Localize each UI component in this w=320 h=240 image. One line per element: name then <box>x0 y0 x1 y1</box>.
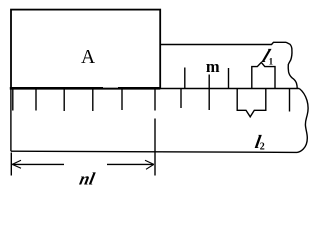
vernier plate A outline <box>11 10 160 89</box>
upper vernier tick 2 (below label m, crosses to lower scale) <box>208 75 210 111</box>
main scale left edge <box>10 89 12 152</box>
main scale top edge (thick under A) <box>10 87 160 90</box>
upper interval bracket for l1 <box>252 62 275 88</box>
torn right edge upper <box>286 42 297 88</box>
svg-text:A: A <box>81 47 95 68</box>
lower scale tick 6 / nl boundary upper segment <box>154 89 156 111</box>
svg-text:1: 1 <box>269 57 274 67</box>
upper vernier tick 1 <box>184 68 186 89</box>
dimension arrow right segment <box>107 163 154 165</box>
white scan dash artifact in thick edge <box>103 86 118 88</box>
left arrowhead <box>12 160 21 168</box>
lower scale tick 7 <box>180 89 182 108</box>
lower scale tick 5 <box>121 89 123 110</box>
lower scale tick 2 <box>35 89 37 111</box>
vernier top edge with step <box>160 42 287 44</box>
main scale bottom edge <box>11 151 297 152</box>
main scale top edge (right thin part) <box>160 88 299 90</box>
svg-text:2: 2 <box>260 141 265 152</box>
svg-text:m: m <box>206 57 220 76</box>
lower scale tick 1 <box>12 89 14 111</box>
lower scale tick 4 <box>92 89 94 111</box>
dimension arrow left segment <box>12 163 64 165</box>
right arrowhead <box>145 160 154 169</box>
torn right edge lower <box>297 89 308 153</box>
lower scale tick 3 <box>63 89 65 111</box>
lower interval bracket for l2 with pointer notch <box>237 89 266 117</box>
lower scale tick 8 <box>289 89 291 112</box>
upper vernier tick 3 <box>228 68 230 89</box>
nl boundary line lower segment through scale body <box>154 119 156 176</box>
left dimension extension line <box>10 153 12 176</box>
